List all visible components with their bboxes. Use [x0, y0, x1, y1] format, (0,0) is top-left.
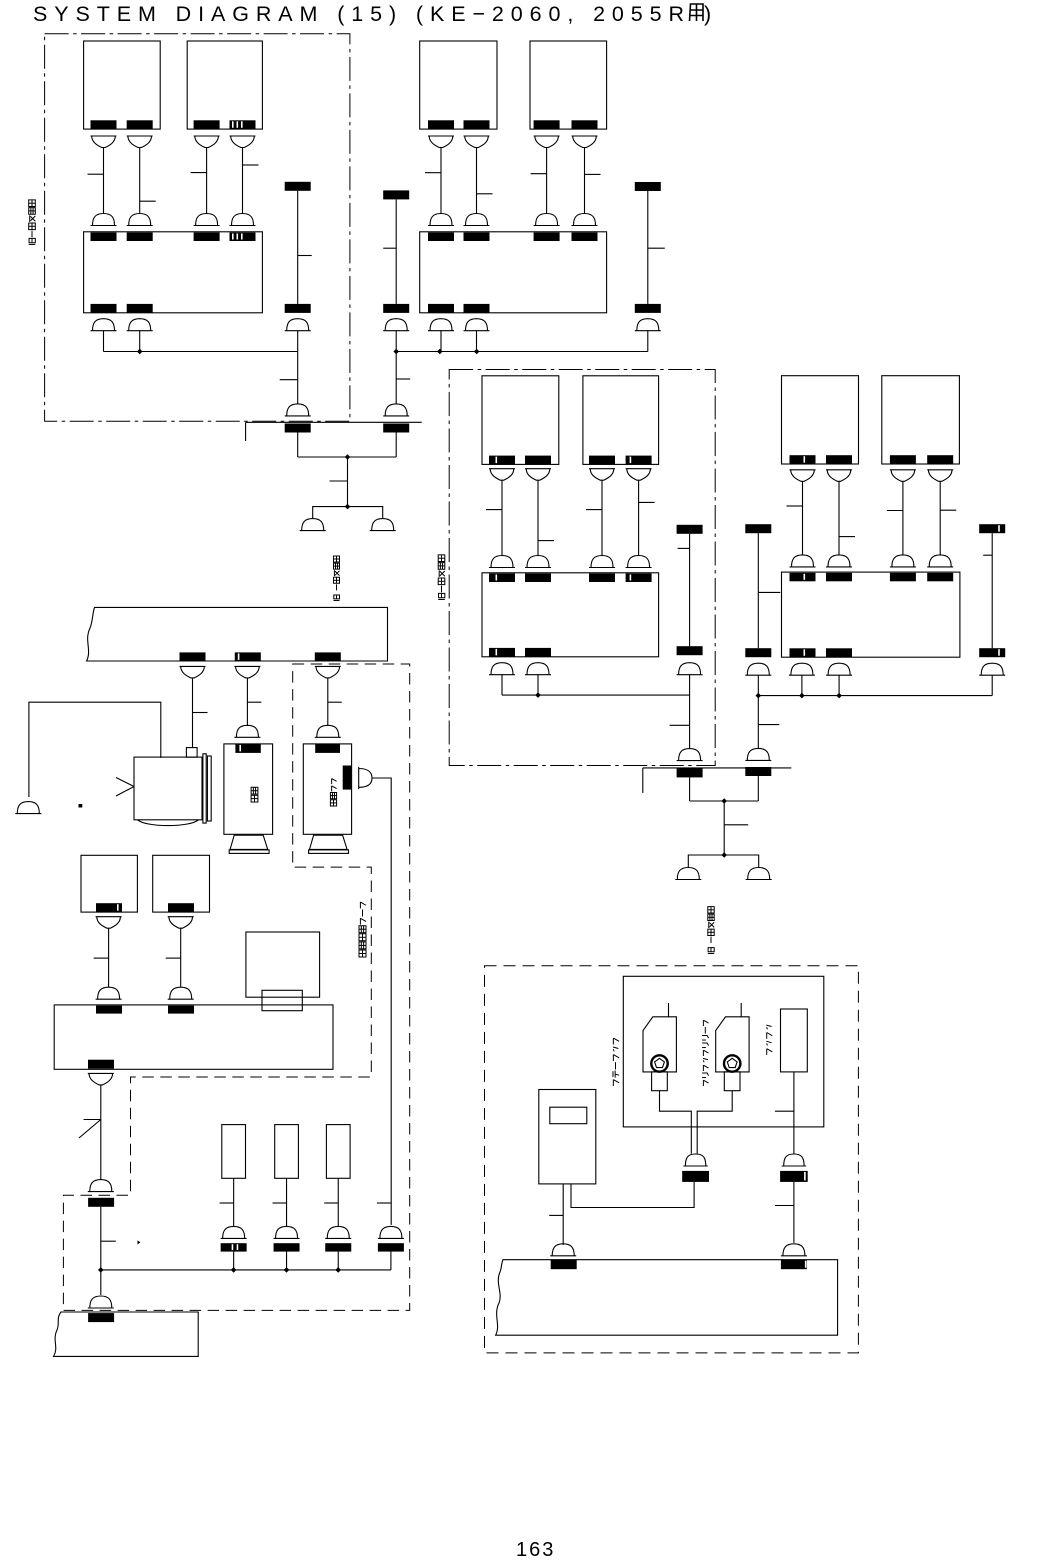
plug D J4 (cup) — [927, 470, 953, 482]
stub wire E2 — [166, 957, 181, 959]
aux box G — [246, 932, 320, 997]
wire A W2 — [139, 148, 141, 214]
wire E2 — [180, 928, 182, 987]
wire A W4 — [242, 148, 244, 214]
plug B output (dome) — [464, 319, 490, 331]
interface wide box D-IF — [782, 572, 960, 657]
head unit box D-1 — [782, 376, 859, 464]
camera 3 box (high magnification) — [303, 744, 351, 834]
wire D W2 — [838, 481, 840, 555]
camera 3 top pad — [315, 744, 340, 753]
camera 3 base plate — [309, 850, 349, 854]
pad D P2 (head box) — [826, 455, 852, 464]
cable A-K1 wire — [297, 191, 299, 304]
merge-L output dome 2 — [370, 519, 396, 531]
cable C-K1 bottom pad — [677, 646, 703, 655]
plug B J1 (cup) — [428, 136, 454, 148]
stub on wire C W2 — [538, 540, 554, 542]
teaching box slot — [550, 1107, 587, 1124]
stub wire N3 — [324, 1202, 338, 1204]
plug base (dome) — [88, 1296, 114, 1308]
plug N3 (dome) — [325, 1226, 351, 1238]
stub cable B-K2 — [648, 247, 665, 249]
camera 2 top pad — [235, 744, 260, 753]
stub on wire A W4 — [243, 164, 259, 166]
bus wire group C — [502, 694, 690, 696]
camera main body box — [134, 757, 202, 820]
wire N3 to bus — [337, 1252, 339, 1270]
pad B PT4 (wide box top) — [572, 233, 598, 242]
merge-L wire down 1 — [297, 433, 299, 458]
label (rot) kyuu ikkatsu-koukan-dai merge-R — [708, 907, 714, 954]
pad base — [88, 1313, 114, 1322]
cable C-K1 top pad — [677, 525, 703, 534]
plug C D2 (dome) — [525, 556, 551, 568]
interface wide box B-IF — [420, 232, 607, 313]
pad A PB2 (wide box bottom) — [127, 304, 153, 313]
merge-L joining wire — [298, 456, 397, 458]
pad D PT2 (wide box top) — [826, 573, 852, 582]
cable D-K2 bottom pad — [979, 648, 1005, 657]
wire C out-right — [537, 675, 539, 695]
pad D P1 (head box) — [790, 455, 816, 464]
camera 2 box (satsuzou) — [224, 744, 273, 834]
teaching box — [539, 1090, 596, 1184]
merge-L output dome 1 — [300, 519, 326, 531]
merge-R rail line — [643, 767, 792, 769]
pad C P3 (head box) — [589, 456, 615, 465]
wire junction — [393, 349, 399, 355]
wire D W3 — [902, 481, 904, 555]
wire E1 — [108, 928, 110, 987]
bus wire group D — [758, 695, 992, 697]
sensor E1 pad — [96, 903, 122, 912]
stub on wire D W1 — [787, 505, 803, 507]
plug B D2 (dome) — [464, 214, 490, 226]
pad C P4 (head box) — [626, 456, 652, 465]
stub cable C-K1 — [678, 547, 690, 549]
plug B D4 (dome) — [572, 214, 598, 226]
cable C-K1 wire — [689, 534, 691, 646]
plug D J1 (cup) — [790, 470, 816, 482]
plug A J4 (cup) — [230, 136, 256, 148]
pad A PT2 (wide box top) — [127, 233, 153, 242]
pad C PB1 (wide box bottom) — [489, 648, 515, 657]
pad A P1 (head box) — [91, 120, 117, 129]
dashed enclosure bottom-right — [485, 966, 859, 1353]
bus wire group A — [104, 351, 298, 353]
stub on wire A W1 — [88, 173, 104, 175]
wire B W1 — [440, 148, 442, 214]
wire junction — [231, 1267, 237, 1273]
stub on wire A W3 — [191, 172, 207, 174]
title kanji (YOU) — [690, 4, 704, 21]
plug A J1 (cup) — [91, 136, 117, 148]
stub on wire B W3 — [531, 173, 547, 175]
camera 3 lens hood trapezoid — [310, 835, 348, 849]
plug A D2 (dome) — [127, 214, 153, 226]
cable A-K1 dome — [285, 319, 311, 331]
stub on wire B W2 — [477, 193, 493, 195]
probe pair pad — [682, 1171, 709, 1182]
plug C J2 (cup) — [525, 469, 551, 481]
cable B-K1 wire — [395, 199, 397, 304]
wire D W4 — [939, 481, 941, 555]
pad C PT4 (wide box top) — [626, 574, 652, 583]
plug A D1 (dome) — [91, 214, 117, 226]
plug N2 (dome) — [274, 1226, 300, 1238]
controller pad FT1 — [96, 1006, 122, 1014]
station probe screw circle — [651, 1055, 667, 1071]
merge-L rail line — [246, 421, 422, 423]
wire junction — [474, 349, 480, 355]
stub cable A-K1 — [298, 255, 312, 257]
stub on wire C W3 — [586, 509, 602, 511]
interface wide box C-IF — [482, 573, 659, 657]
plug D output (dome) — [826, 663, 852, 675]
wire B out-left — [440, 331, 442, 352]
stub cable C-K1 lower — [670, 724, 690, 726]
plug B output (dome) — [428, 319, 454, 331]
wire N2 to bus — [286, 1252, 288, 1270]
plug B J4 (cup) — [572, 136, 598, 148]
aux module box N3 — [326, 1125, 350, 1179]
label (rot) kyuu ikkatsu-koukan-dai merge-L — [334, 556, 340, 601]
plug M3 (dome) — [315, 725, 341, 737]
plug D D2 (dome) — [826, 555, 852, 567]
stub wire M2 — [247, 701, 261, 703]
cable B-K2 bottom pad — [635, 304, 661, 313]
svg-text:163: 163 — [516, 1539, 555, 1561]
merge-L rail left drop — [245, 422, 247, 441]
bus wire group B — [396, 351, 648, 353]
pad A PT3 (wide box top) — [194, 233, 220, 242]
stub wire N2 — [273, 1202, 287, 1204]
controller box F — [54, 1005, 333, 1069]
stub on wire D W3 — [887, 510, 903, 512]
wire junction — [335, 1267, 341, 1273]
chuck pad — [780, 1171, 808, 1182]
wire junction — [721, 852, 727, 858]
pad A PB1 (wide box bottom) — [91, 304, 117, 313]
plug C J3 (cup) — [589, 469, 615, 481]
plug camera-3 (dome) — [378, 1226, 404, 1238]
pad A P4 (head box) — [230, 120, 256, 129]
pad B PT1 (wide box top) — [428, 233, 454, 242]
head unit box B-2 — [530, 41, 607, 129]
plug E2 (dome) — [168, 987, 194, 999]
wire B W3 — [546, 148, 548, 214]
head unit box A-2 — [187, 41, 262, 129]
plug E2 (cup) — [168, 917, 194, 929]
merge-L pad 2 — [383, 424, 409, 433]
plug M1 (cup) — [180, 666, 206, 678]
stub cable B-K1 lower — [396, 378, 410, 380]
main unit pad M1 — [180, 652, 206, 661]
pad N1 — [221, 1243, 247, 1251]
plug C D4 (dome) — [626, 556, 652, 568]
wire B W4 — [584, 148, 586, 214]
aux module box N2 — [275, 1125, 299, 1179]
plug F-out (dome) — [88, 1180, 114, 1192]
cable D-K2 dome — [979, 663, 1005, 675]
wire N1 — [233, 1178, 235, 1227]
cable B-K2 top pad — [635, 182, 661, 191]
plug A J3 (cup) — [194, 136, 220, 148]
wire C W1 — [501, 480, 503, 555]
wire to base unit — [100, 1270, 102, 1295]
aux box G connector — [262, 990, 302, 1010]
plug C D3 (dome) — [589, 556, 615, 568]
wire A out-right — [139, 331, 141, 352]
teaching base pad — [551, 1260, 577, 1270]
station probe body — [643, 1017, 676, 1072]
wire D out-left — [801, 675, 803, 695]
camera-3 wire to bus — [390, 1252, 392, 1270]
cable D-K1 dome — [745, 663, 771, 675]
chuck lower wire — [793, 1182, 795, 1243]
camera 3 side pad — [343, 766, 352, 790]
pad A PT1 (wide box top) — [91, 233, 117, 242]
merge-R trunk wire — [723, 801, 725, 855]
station base box (torn left edge) — [496, 1260, 838, 1336]
station probe neck — [652, 1072, 668, 1091]
pad F-out — [88, 1198, 114, 1207]
stub on wire D W2 — [839, 536, 855, 538]
wire C W4 — [638, 480, 640, 555]
pad D PB1 (wide box bottom) — [790, 648, 816, 657]
cable C-K1 down wire — [689, 675, 691, 749]
sensor box E2 — [153, 855, 210, 912]
pad B P4 (head box) — [572, 120, 598, 129]
label (rot) chuck — [766, 1025, 772, 1055]
cable D-K2 wire — [991, 533, 993, 648]
stub on wire B W1 — [425, 172, 441, 174]
plug B J2 (cup) — [464, 136, 490, 148]
plug D J3 (cup) — [890, 470, 916, 482]
pad B PT3 (wide box top) — [534, 233, 560, 242]
wire C out-left — [501, 675, 503, 695]
wire junction — [137, 349, 143, 355]
merge-R output dome 1 — [675, 868, 701, 880]
plug C J1 (cup) — [489, 469, 515, 481]
stub cable D-K1 lower — [758, 724, 779, 726]
wire B W2 — [476, 148, 478, 214]
camera 3 signal wire — [372, 778, 391, 1225]
chuck box — [781, 1009, 808, 1072]
plug M3 (cup) — [315, 666, 341, 678]
cable D-K2 riser to bus — [991, 675, 993, 695]
cable D-K1 bottom pad — [745, 648, 771, 657]
merge-R output dome 2 — [746, 868, 772, 880]
head unit box C-2 — [583, 376, 659, 465]
sensor E2 pad — [168, 903, 194, 912]
cable B-K2 dome — [635, 319, 661, 331]
pad D PB2 (wide box bottom) — [826, 648, 852, 657]
merge-L pad 1 — [285, 424, 311, 433]
stub chuck wire — [775, 1110, 794, 1112]
wire D out-right — [838, 675, 840, 695]
merge-R wire down 2 — [757, 776, 759, 801]
stub camera-3 wire — [377, 1202, 391, 1204]
plug C output (dome) — [525, 663, 551, 675]
pad N3 — [325, 1243, 351, 1251]
pad A P3 (head box) — [194, 120, 220, 129]
stub cable D-K2 — [983, 554, 992, 556]
wire C W2 — [537, 480, 539, 555]
plug E1 (dome) — [96, 987, 122, 999]
stub on wire C W1 — [486, 509, 502, 511]
wire junction — [345, 504, 351, 510]
wire junction — [756, 693, 762, 699]
plug M2 (dome) — [234, 725, 260, 737]
chuck base pad — [781, 1260, 807, 1270]
pad D P3 (head box) — [890, 455, 916, 464]
pad D P4 (head box) — [927, 455, 953, 464]
label (rot) kyuu-ikkatsu-koukan-dai group1 — [29, 200, 36, 245]
pad C P2 (head box) — [525, 456, 551, 465]
pad B P3 (head box) — [534, 120, 560, 129]
label (rot) satsuzou — [251, 787, 258, 802]
plug B D1 (dome) — [428, 214, 454, 226]
plug A J2 (cup) — [127, 136, 153, 148]
pad C PT2 (wide box top) — [525, 574, 551, 583]
merge-R pad 2 — [745, 767, 771, 776]
plug A D4 (dome) — [230, 214, 256, 226]
head unit box D-2 — [882, 376, 960, 464]
wire A out-left — [103, 331, 105, 352]
wire D W1 — [802, 481, 804, 555]
merge-L trunk wire — [347, 457, 349, 507]
cable B-K2 riser to bus — [647, 331, 649, 352]
wire F-out upper — [100, 1085, 102, 1180]
label (rot) koubairitsu lens — [330, 779, 336, 806]
verify probe neck — [724, 1072, 740, 1091]
pad B P1 (head box) — [428, 120, 454, 129]
pad C P1 (head box) — [489, 456, 515, 465]
merge-L connector 2 (dome) — [383, 404, 409, 416]
cable B-K1 down wire — [395, 331, 397, 404]
camera lens bottom arc — [138, 820, 199, 826]
wire junction — [98, 1267, 104, 1273]
pad D PT4 (wide box top) — [927, 573, 953, 582]
stub teaching wire A — [549, 1214, 563, 1216]
plug A output (dome) — [91, 319, 117, 331]
stub wire E1 — [94, 957, 109, 959]
wire C W3 — [601, 480, 603, 555]
teaching box wire A — [562, 1184, 564, 1245]
interface wide box A-IF — [84, 232, 263, 313]
pad C PT3 (wide box top) — [589, 574, 615, 583]
plug A D3 (dome) — [194, 214, 220, 226]
pad N2 — [274, 1243, 300, 1251]
verify probe body — [716, 1017, 749, 1072]
plug D output (dome) — [789, 663, 815, 675]
plug F-out (cup) — [88, 1073, 114, 1085]
stub wire M3 — [328, 701, 342, 703]
tiny mark dot — [79, 804, 83, 808]
cable A-K1 bottom pad — [285, 304, 311, 313]
chuck dome — [782, 1154, 806, 1166]
cable D-K1 wire — [757, 533, 759, 648]
camera 2 lens hood trapezoid — [230, 835, 268, 849]
label (rot) verify probe — [702, 1020, 708, 1086]
aux module box N1 — [222, 1125, 246, 1179]
plug A output (dome) — [127, 319, 153, 331]
merge-L connector 1 (dome) — [285, 404, 311, 416]
wire junction — [535, 692, 541, 698]
pad camera-3 — [378, 1243, 404, 1251]
plug D D3 (dome) — [890, 555, 916, 567]
stub merge-R trunk — [724, 824, 748, 826]
merge-R connector 2 (dome) — [745, 748, 771, 760]
stub cable D-K1 — [758, 591, 780, 593]
teaching dome — [550, 1244, 576, 1256]
cable break mark — [79, 1120, 101, 1139]
camera pointer arrow — [116, 778, 134, 797]
cable D-K1 top pad — [745, 524, 771, 533]
station probe wire — [668, 1003, 670, 1017]
ground L-wire — [29, 702, 161, 797]
wire M3 — [327, 678, 329, 726]
wire B out-right — [476, 331, 478, 352]
probe frame box — [623, 976, 824, 1127]
merge-R connector 1 (dome) — [677, 749, 703, 761]
wire A W3 — [206, 148, 208, 214]
plug E1 (cup) — [96, 917, 122, 929]
wire N2 — [286, 1178, 288, 1227]
dash-dot enclosure group 1 — [45, 34, 350, 422]
pad C PT1 (wide box top) — [489, 574, 515, 583]
pad C PB2 (wide box bottom) — [525, 648, 551, 657]
main unit pad M3 — [315, 652, 341, 661]
cable D-K1 down wire — [757, 675, 759, 748]
machine base box (torn left edge) — [54, 1312, 199, 1356]
stub chuck lower wire — [775, 1205, 794, 1207]
stub cable A-K1 lower — [280, 379, 298, 381]
dashed enclosure high-res camera + I/O (polygon) — [63, 664, 409, 1310]
cable C-K1 dome — [677, 663, 703, 675]
pad D PT1 (wide box top) — [790, 573, 816, 582]
cable B-K1 bottom pad — [383, 304, 409, 313]
camera side plate 2 — [207, 756, 211, 821]
stub on wire D W4 — [940, 509, 956, 511]
plug M2 (cup) — [234, 666, 260, 678]
probe pair dome — [683, 1154, 707, 1166]
camera 3 side dome (right-facing) — [359, 767, 372, 789]
svg-text:): ) — [704, 2, 711, 26]
verify probe screw circle — [724, 1055, 740, 1071]
stub wire N1 — [220, 1202, 234, 1204]
cable B-K2 wire — [647, 191, 649, 304]
probe pair wires — [660, 1091, 733, 1154]
controller pad FB (bottom) — [88, 1060, 114, 1069]
sensor box E1 — [81, 855, 137, 912]
wire junction — [284, 1267, 290, 1273]
main unit pad M2 — [235, 652, 261, 661]
verify probe wire — [740, 1003, 742, 1017]
wire A W1 — [103, 148, 105, 214]
wire N1 to bus — [233, 1252, 235, 1270]
head unit box C-1 — [482, 376, 559, 465]
wire junction — [799, 693, 805, 699]
camera side plate 1 — [203, 754, 206, 823]
cable A-K1 top pad — [285, 182, 311, 191]
plug N1 (dome) — [221, 1226, 247, 1238]
label (rot) kou-kaizoudo camera — [359, 902, 366, 957]
plug D D1 (dome) — [790, 555, 816, 567]
dash-dot enclosure group 3 — [449, 370, 715, 766]
